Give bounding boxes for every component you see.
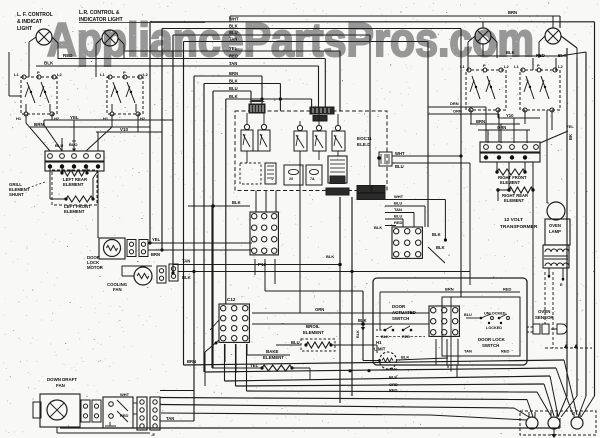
svg-text:BRN: BRN — [445, 287, 454, 292]
wire BRN below right switches — [470, 123, 520, 125]
door lock motor M1 — [99, 238, 125, 259]
svg-text:DRN: DRN — [450, 101, 459, 106]
svg-text:BLK: BLK — [436, 245, 445, 250]
switch S1 terminals — [22, 75, 26, 79]
svg-text:-E: -E — [151, 432, 155, 437]
svg-text:RED: RED — [503, 287, 512, 292]
svg-text:ORN: ORN — [497, 125, 506, 130]
door lock switch inner box — [442, 297, 520, 356]
wire bus left vertical x225.8 — [225, 99, 227, 304]
svg-text:SHUNT: SHUNT — [9, 192, 24, 197]
switch S4 terminals — [521, 68, 525, 72]
svg-text:P: P — [483, 63, 486, 68]
connector strip on ERC top edge left — [249, 104, 265, 113]
svg-text:BLU: BLU — [394, 214, 402, 219]
svg-text:E: E — [560, 282, 563, 287]
resistor left rear element — [61, 167, 63, 174]
svg-text:BRN: BRN — [229, 71, 238, 76]
svg-text:BLK: BLK — [381, 335, 389, 339]
door switch enclosure box — [373, 278, 527, 365]
svg-text:RED: RED — [120, 413, 129, 418]
svg-text:LOCKED: LOCKED — [486, 326, 502, 330]
connector P12 — [250, 212, 278, 255]
svg-text:L2: L2 — [558, 64, 563, 69]
wire bus right drop x280 — [279, 84, 281, 111]
oven lamp bulb — [547, 202, 565, 220]
wire bottom lowest — [60, 427, 560, 429]
svg-text:L1: L1 — [100, 72, 105, 77]
wire YEL right — [540, 131, 568, 143]
svg-text:BLK: BLK — [358, 318, 367, 323]
svg-text:L1: L1 — [514, 64, 519, 69]
svg-text:BLU: BLU — [464, 313, 472, 317]
svg-text:DOOR LOCK: DOOR LOCK — [478, 337, 506, 342]
wire vertical x533 to oven sensor — [532, 190, 534, 324]
wire bus BRN y=76 — [194, 75, 262, 77]
svg-text:L.R. CONTROL &: L.R. CONTROL & — [79, 10, 120, 16]
svg-text:FAN: FAN — [56, 383, 65, 388]
svg-text:EOC11: EOC11 — [357, 136, 372, 141]
electronic range control dashed enclosure — [235, 111, 387, 191]
terminal block TB1 (left elements) — [45, 151, 104, 161]
wire bus RED y=58.5 — [58, 58, 325, 60]
plug P2 — [548, 417, 560, 429]
svg-text:TAN: TAN — [229, 36, 237, 41]
svg-text:YEL: YEL — [152, 237, 161, 242]
svg-text:RED: RED — [229, 53, 238, 58]
wire transformer bottom leads — [548, 268, 550, 278]
wire ORN to right terminal block — [428, 113, 499, 115]
wire BLK cooling fan — [178, 271, 470, 273]
svg-text:TRANSFORMER: TRANSFORMER — [500, 224, 538, 230]
switch S4 contact arms — [526, 76, 534, 99]
wire Y10 below right switches — [503, 117, 540, 119]
svg-text:BRN: BRN — [151, 252, 160, 257]
plug enclosure dashed box — [520, 411, 596, 435]
svg-text:BLK: BLK — [44, 61, 54, 66]
transformer on EOC board — [328, 156, 347, 183]
wire BRN door lock motor — [148, 249, 252, 251]
svg-text:L1: L1 — [14, 72, 19, 77]
svg-text:BRN: BRN — [508, 10, 517, 15]
connector pair cooling fan — [157, 266, 166, 283]
svg-text:BLK: BLK — [389, 375, 397, 380]
wire bus vertical x370 — [369, 35, 371, 190]
wire bus WHT y=21.8 — [150, 21, 595, 23]
wire terminal block drop — [97, 171, 99, 238]
wire bottom bus L4 GRD (C12 col2) — [235, 344, 237, 386]
svg-text:BRN: BRN — [187, 359, 196, 364]
wire relay drops — [299, 151, 301, 313]
component dashed pad in ERC — [240, 163, 261, 184]
wire BRN below switches — [30, 126, 150, 128]
svg-text:WHT: WHT — [120, 392, 130, 397]
svg-text:BAKE: BAKE — [266, 349, 279, 354]
svg-text:BLK: BLK — [229, 94, 238, 99]
wire bus right drop x340 — [339, 51, 341, 111]
wire bus right drop x318 — [318, 66, 320, 111]
wire bus BLK y=83.5 — [204, 83, 280, 85]
infinite switch S3 (R.F.) dashed box — [466, 70, 506, 110]
switch contacts door actuated — [384, 329, 387, 332]
wire bus left vertical x213 — [212, 91, 214, 368]
svg-text:L2: L2 — [143, 72, 148, 77]
wire bus left vertical x183.5 — [183, 42, 185, 366]
wire lamp DS4 leads — [552, 16, 554, 28]
wire bottom bus L3 BLK (C12 col1) — [224, 344, 226, 381]
wire vertical x340 to bottom bus — [339, 197, 341, 403]
wire bus BLK y=28.5 — [162, 28, 461, 30]
junction dots on bus L2 — [348, 369, 351, 372]
wire P12 bottom drops — [254, 259, 256, 275]
switch S3 contact arms — [472, 76, 480, 99]
down draft fan motor M3 — [40, 394, 80, 427]
wire bus BLK y=99 — [226, 98, 312, 100]
wire ORN below right switches — [478, 129, 530, 131]
svg-text:BLK: BLK — [401, 355, 409, 360]
wire bus TAN y=41.5 — [184, 41, 429, 43]
svg-text:ELE.D: ELE.D — [357, 142, 371, 147]
svg-text:ORN: ORN — [315, 307, 324, 312]
wire BRN top right — [230, 15, 560, 17]
svg-text:12 VOLT: 12 VOLT — [504, 217, 523, 223]
svg-text:ELEMENT: ELEMENT — [303, 330, 324, 335]
svg-text:L2: L2 — [504, 64, 509, 69]
svg-text:TAN: TAN — [229, 61, 237, 66]
svg-text:YEL: YEL — [70, 115, 79, 120]
wire lamp feeds — [28, 59, 30, 77]
wire door grid drops — [435, 339, 437, 365]
dashed boundary around left elements — [52, 170, 97, 205]
wire bus right drop x262 — [261, 76, 263, 106]
wire bottom bus L6 — [160, 398, 527, 400]
svg-text:BLU: BLU — [394, 201, 402, 206]
wire relay feeds from strips — [246, 113, 248, 125]
svg-text:RED: RED — [389, 388, 398, 393]
wire BRN inside door box — [380, 291, 520, 293]
svg-text:ELEMENT: ELEMENT — [504, 198, 524, 203]
wire bus vertical x461 upper — [460, 29, 462, 298]
svg-text:BLK: BLK — [326, 254, 334, 259]
svg-text:7A: 7A — [310, 177, 315, 181]
wire to left front element — [49, 167, 51, 200]
wire YEL door lock motor — [148, 242, 252, 244]
svg-text:OVEN: OVEN — [549, 223, 561, 228]
svg-text:RED: RED — [536, 53, 545, 58]
wire TAN from EOC connector — [385, 212, 414, 214]
svg-text:ELEMENT: ELEMENT — [63, 182, 84, 187]
svg-text:YEL: YEL — [229, 46, 238, 51]
wire vertical x352 to bottom bus — [351, 197, 353, 396]
wire vertical x470 to door box — [469, 163, 471, 285]
svg-text:BLK: BLK — [229, 23, 238, 28]
indicator lamp DS2 (L.R.) — [102, 30, 118, 46]
resistor right front element — [496, 162, 498, 172]
indicator lamp DS1 (L.F.) — [36, 29, 52, 45]
svg-text:BLU: BLU — [55, 143, 63, 148]
svg-text:MOTOR: MOTOR — [87, 265, 104, 270]
svg-text:SWITCH: SWITCH — [482, 343, 499, 348]
svg-text:ACTUATED: ACTUATED — [392, 310, 416, 315]
svg-text:BK: BK — [568, 134, 573, 140]
wire lamp DS1 leads — [29, 37, 36, 42]
wire WHT from ERC — [392, 155, 461, 157]
dashed tick line right — [545, 347, 592, 349]
svg-text:RED: RED — [63, 53, 73, 58]
wire DRN to right terminal block — [428, 106, 486, 108]
wire bus BLU y=35 — [173, 34, 370, 36]
wire vertical x363 — [362, 291, 364, 324]
junction node at (213,206) — [188, 205, 250, 207]
svg-text:BLK: BLK — [229, 78, 238, 83]
wire vertical x451 in door box — [450, 297, 452, 365]
wire BLU to lock switch — [466, 317, 481, 319]
wire bus right drop x311 — [311, 99, 313, 107]
wire lamp DS3 leads — [482, 22, 484, 28]
svg-text:BLK: BLK — [356, 330, 360, 338]
svg-text:TAN: TAN — [166, 416, 174, 421]
svg-text:BRN: BRN — [476, 119, 485, 124]
svg-text:LAMP: LAMP — [549, 229, 561, 234]
indicator lamp DS3 (R.F.) — [475, 28, 491, 44]
wire right bus x575 lower — [576, 58, 578, 396]
switch S2 terminals — [108, 75, 112, 79]
wire C12 right runs — [252, 312, 429, 314]
wire right bus x566 — [566, 48, 568, 348]
transformer T2 in ERC — [265, 163, 276, 184]
connector strip on ERC top edge right — [310, 107, 334, 114]
svg-text:DOOR: DOOR — [392, 304, 406, 309]
plug P1 — [526, 417, 538, 429]
wire P12 feeds from ERC — [255, 191, 257, 213]
svg-text:P: P — [37, 70, 40, 75]
relay K1 group — [241, 130, 253, 151]
wire BLU2 from EOC connector — [385, 218, 403, 220]
svg-text:SWITCH: SWITCH — [392, 316, 409, 321]
svg-text:BLU: BLU — [291, 340, 300, 345]
wire drops to left terminal block — [25, 114, 27, 123]
svg-text:L. F. CONTROL: L. F. CONTROL — [17, 12, 53, 18]
wire bus left vertical x173 — [172, 35, 174, 273]
svg-text:GRD: GRD — [389, 382, 398, 387]
svg-text:TAN: TAN — [394, 207, 402, 212]
resistor left front element — [66, 196, 93, 202]
svg-text:BLK: BLK — [182, 275, 191, 280]
connector grid door actuated switch — [429, 306, 459, 336]
wire bus YEL y=51 — [124, 50, 340, 52]
svg-text:OVEN: OVEN — [538, 309, 550, 314]
wire bus right drop x325 — [324, 59, 326, 111]
switch S3 terminals — [467, 68, 471, 72]
wire BLK vertical right x575 — [576, 48, 578, 58]
infinite switch S2 (L.R.) dashed box — [107, 77, 143, 114]
wire C12 left diagonals — [205, 340, 219, 352]
wire right bus x584 — [585, 52, 587, 396]
component block A in ERC — [284, 165, 303, 185]
svg-text:BLK: BLK — [506, 50, 515, 55]
wire bottom bus L1 BRN — [184, 360, 565, 365]
svg-text:ELEMENT: ELEMENT — [263, 355, 284, 360]
connector pair door lock motor — [127, 240, 136, 257]
svg-text:DOWN DRAFT: DOWN DRAFT — [47, 377, 77, 382]
wire bottom bus L7 — [160, 405, 514, 409]
svg-text:TAN: TAN — [464, 349, 472, 354]
wire lamp DS2 leads — [96, 38, 102, 44]
svg-text:H1: H1 — [16, 116, 22, 121]
wire bus left vertical x204 — [203, 84, 205, 373]
svg-text:BLU: BLU — [229, 86, 238, 91]
terminal block TB2 (right elements) — [480, 142, 540, 152]
wire strips to right — [160, 390, 194, 392]
svg-text:RED: RED — [402, 335, 410, 339]
wire right verticals into plugs — [558, 396, 567, 417]
svg-text:TAN: TAN — [182, 259, 190, 264]
svg-text:BLK: BLK — [374, 225, 382, 230]
svg-text:BLK: BLK — [232, 200, 241, 205]
wire bus left vertical x194 — [193, 76, 195, 421]
wire BLK drop to H1 — [362, 324, 364, 361]
svg-text:RED: RED — [394, 220, 403, 225]
indicator lamp DS4 (R.R.) — [545, 28, 561, 44]
wire right bus x592 — [594, 22, 596, 396]
connector pair down draft fan — [81, 400, 90, 422]
wire RED from EOC connector — [385, 225, 396, 227]
svg-text:WHT: WHT — [394, 194, 404, 199]
svg-text:ELEMENT: ELEMENT — [500, 180, 520, 185]
switch S2 contact arms — [113, 82, 121, 103]
wire RED/BLK right controls — [496, 42, 498, 58]
connector strips on ERC bottom edge — [326, 188, 349, 195]
wire bottom long TAN — [161, 413, 430, 415]
wire bus vertical x428 — [427, 42, 429, 228]
svg-text:20: 20 — [289, 177, 293, 181]
svg-text:C12: C12 — [227, 297, 236, 302]
svg-text:FAN: FAN — [113, 287, 122, 292]
wire drops to right terminal block — [470, 110, 472, 124]
svg-text:BROIL: BROIL — [306, 324, 320, 329]
pigtail connector on ERC right edge — [379, 152, 392, 166]
svg-text:UNLOCKED: UNLOCKED — [484, 312, 506, 316]
svg-text:LIMIT: LIMIT — [374, 347, 386, 352]
svg-text:ELEMENT: ELEMENT — [64, 209, 85, 214]
svg-text:ORN: ORN — [453, 109, 462, 114]
svg-text:& INDICAT: & INDICAT — [17, 19, 42, 25]
wire BLU from ERC — [392, 162, 470, 164]
junction dots on lower bus line — [260, 97, 263, 100]
svg-text:BLK: BLK — [432, 232, 441, 237]
switch S1 contact arms — [27, 82, 35, 103]
wire TAN cooling fan — [173, 264, 340, 266]
svg-text:RED: RED — [501, 349, 510, 354]
svg-text:BRN: BRN — [34, 122, 44, 127]
svg-text:LIGHT: LIGHT — [17, 26, 32, 32]
wire door box bottom stubs — [447, 365, 449, 368]
connector plug (center-right) — [392, 227, 422, 258]
wire far-left vertical — [8, 52, 10, 96]
svg-text:WHT: WHT — [395, 151, 405, 156]
wire V10 below switches — [96, 131, 162, 133]
transformer T1 12 volt — [543, 245, 569, 268]
cooling fan motor M2 — [134, 267, 152, 285]
wire oven lamp feed — [546, 110, 548, 203]
wire bus TAN y=66 — [36, 65, 319, 67]
svg-text:P: P — [123, 70, 126, 75]
wire fan to strips — [133, 402, 137, 404]
svg-text:P: P — [537, 63, 540, 68]
resistor right rear element — [508, 162, 510, 190]
fan run capacitor block — [103, 397, 133, 428]
svg-text:H1: H1 — [376, 340, 382, 345]
svg-text:V10: V10 — [120, 127, 129, 132]
plug P3 — [571, 417, 583, 429]
svg-text:L1: L1 — [460, 64, 465, 69]
relay K2 group — [294, 131, 307, 151]
wire bottom bus L5 RED (C12 col3) — [246, 344, 248, 391]
wire top line to right controls — [559, 16, 561, 28]
svg-text:L2: L2 — [57, 72, 62, 77]
wire bus BLU y=91 — [213, 90, 251, 92]
wire bottom y421 — [160, 420, 194, 422]
wire YEL below switches — [44, 119, 173, 121]
wire BLU from EOC connector — [385, 205, 425, 207]
svg-text:TAN: TAN — [389, 367, 397, 372]
terminal strips bottom (double) — [137, 397, 147, 430]
svg-text:BLU: BLU — [229, 30, 238, 35]
wire right switch feeds — [467, 58, 469, 70]
svg-text:BLO: BLO — [69, 142, 77, 147]
wire bus left vertical x150 — [149, 22, 151, 243]
infinite switch S4 (R.R.) dashed box — [520, 70, 560, 110]
svg-text:Y10: Y10 — [506, 113, 514, 118]
wire bus left vertical x162 — [161, 29, 163, 251]
ground symbol below P2 — [553, 429, 555, 434]
component block B in ERC — [306, 165, 322, 185]
svg-text:BLU: BLU — [395, 164, 404, 169]
wire WHT from EOC connector — [385, 199, 445, 201]
wire C12 bottom drops — [224, 344, 226, 362]
wire bottom bus L2 TAN — [205, 368, 556, 372]
infinite switch S1 (L.F.) dashed box — [21, 77, 57, 114]
wire bus right drop x251 — [250, 91, 252, 106]
